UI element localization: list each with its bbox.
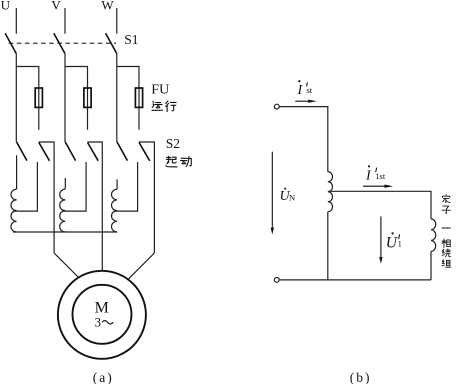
wire V corner to rail [88, 142, 103, 271]
voltage UN arrow [271, 152, 273, 230]
svg-text:1st: 1st [375, 171, 386, 181]
wire V to coil [64, 178, 66, 189]
switch S2 pole U fuse blade [39, 142, 50, 160]
wire star point bus [13, 231, 117, 233]
wire top circuit b [279, 107, 328, 172]
wire V branch tee [65, 67, 88, 130]
wire right branch below [430, 251, 432, 280]
wire W to coil [116, 179, 118, 189]
switch S2 pole W fuse blade [139, 142, 150, 160]
svg-text:(a): (a) [93, 370, 114, 384]
switch S1 pole W blade [106, 33, 117, 53]
current Ist arrow [295, 100, 309, 102]
wire W rail to motor [128, 253, 154, 279]
switch S2 pole V fuse blade [88, 142, 99, 160]
label yunxing (run) [152, 101, 163, 110]
wire W main vertical [116, 54, 118, 142]
svg-text:U: U [1, 0, 11, 12]
switch S2 pole U main blade [16, 142, 27, 161]
voltage U1 arrow [380, 216, 382, 259]
fuse FU phase U [35, 88, 42, 107]
autotransformer coil phase V [60, 189, 66, 232]
wire bottom circuit b [279, 279, 431, 281]
svg-text:(b): (b) [350, 370, 372, 384]
fuse FU phase V [84, 88, 91, 107]
wire U tap [14, 162, 38, 211]
switch S1 gang dashed link [9, 42, 116, 44]
wire U main vertical [15, 54, 17, 142]
svg-text:3: 3 [95, 315, 102, 330]
svg-text:S2: S2 [166, 136, 180, 151]
wire W corner to rail [139, 142, 154, 253]
switch S1 pole U blade [5, 33, 16, 53]
motor tilde [102, 321, 113, 324]
svg-text:V: V [51, 0, 61, 12]
fuse FU phase W [135, 88, 142, 107]
wire U rail to motor [54, 253, 79, 278]
wire U branch tee [16, 67, 39, 130]
label qidong (start) [166, 156, 177, 167]
autotransformer coil phase U [11, 189, 17, 232]
wire U corner to rail [39, 142, 54, 253]
terminal top circuit b [274, 104, 279, 109]
wire tap branch [328, 191, 431, 219]
wire V tap [62, 162, 86, 211]
switch S2 pole V main blade [65, 142, 76, 161]
autotransformer coil phase W [112, 189, 118, 232]
switch S1 pole V blade [54, 33, 65, 53]
wire W branch tee [117, 67, 139, 130]
switch S2 pole W main blade [117, 142, 128, 161]
terminal bottom circuit b [274, 278, 279, 283]
svg-text:1: 1 [398, 238, 402, 248]
label stator one-phase winding [442, 194, 450, 202]
svg-text:FU: FU [151, 83, 169, 98]
stator winding coil circuit b [431, 219, 436, 251]
wire V supply drop [64, 8, 66, 34]
autotransformer coil circuit b [328, 172, 333, 212]
wire V main vertical [64, 54, 66, 142]
motor M inner circle [73, 285, 132, 344]
motor M outer circle [58, 271, 146, 359]
svg-text:st: st [307, 85, 313, 95]
wire rail below coil [327, 212, 329, 280]
current I1st arrow [363, 185, 386, 187]
wire U to coil [16, 155, 18, 189]
wire W supply drop [116, 8, 118, 34]
svg-text:N: N [289, 193, 295, 203]
svg-text:W: W [101, 0, 114, 12]
svg-text:I: I [297, 83, 304, 98]
svg-text:S1: S1 [124, 32, 138, 47]
wire U supply drop [15, 8, 17, 34]
svg-text:I: I [365, 169, 372, 184]
wire W tap [114, 162, 137, 211]
